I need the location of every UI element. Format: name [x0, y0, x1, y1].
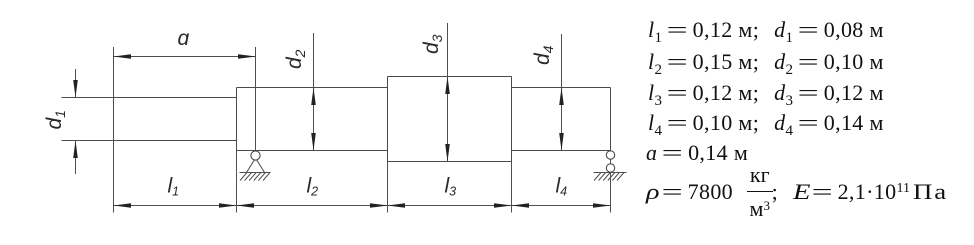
svg-text:l2: l2 [307, 175, 319, 199]
svg-text:d3: d3 [420, 34, 445, 54]
svg-text:ɑ: ɑ [178, 27, 190, 50]
svg-text:d4: d4 [531, 45, 556, 65]
svg-text:d1: d1 [43, 110, 68, 129]
svg-text:l3: l3 [445, 175, 457, 199]
svg-text:d2: d2 [283, 49, 308, 69]
svg-text:l4: l4 [556, 175, 568, 199]
svg-text:l1: l1 [168, 175, 180, 199]
